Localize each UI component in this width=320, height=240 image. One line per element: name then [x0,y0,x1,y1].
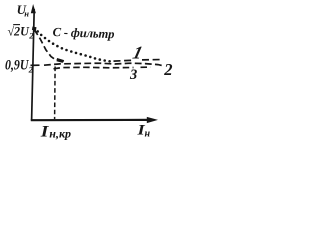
y-axis arrowhead [31,4,36,13]
svg-text:С - фильтр: С - фильтр [52,25,114,41]
x-axis [31,119,150,121]
dashed line 1 (continuation of dotted curve) [114,60,162,62]
svg-text:3: 3 [129,67,137,83]
vertical dashed line at I_n,kr [54,67,57,120]
y-axis [32,9,35,121]
dashed line 2 (0.9U2 level, ends at label 2) [44,63,164,66]
dotted C-filter curve [36,30,110,63]
tick 0,9U2 on axis [31,64,40,66]
dashed knee curve from sqrt2U2 down to 0.9U2 level [34,30,64,63]
svg-text:2: 2 [28,31,34,41]
knee junction thick dash [57,59,64,61]
svg-text:н: н [145,129,151,140]
svg-text:√2U: √2U [7,24,29,38]
svg-text:I: I [40,124,50,141]
svg-text:0,9U: 0,9U [5,57,30,73]
svg-text:н,кр: н,кр [49,126,71,140]
svg-text:2: 2 [28,65,34,75]
svg-text:2: 2 [163,60,172,79]
start junction blob at sqrt2 U2 [32,27,37,31]
svg-text:н: н [24,9,29,19]
dashed line 3 [54,67,151,69]
x-axis arrowhead [147,117,158,123]
